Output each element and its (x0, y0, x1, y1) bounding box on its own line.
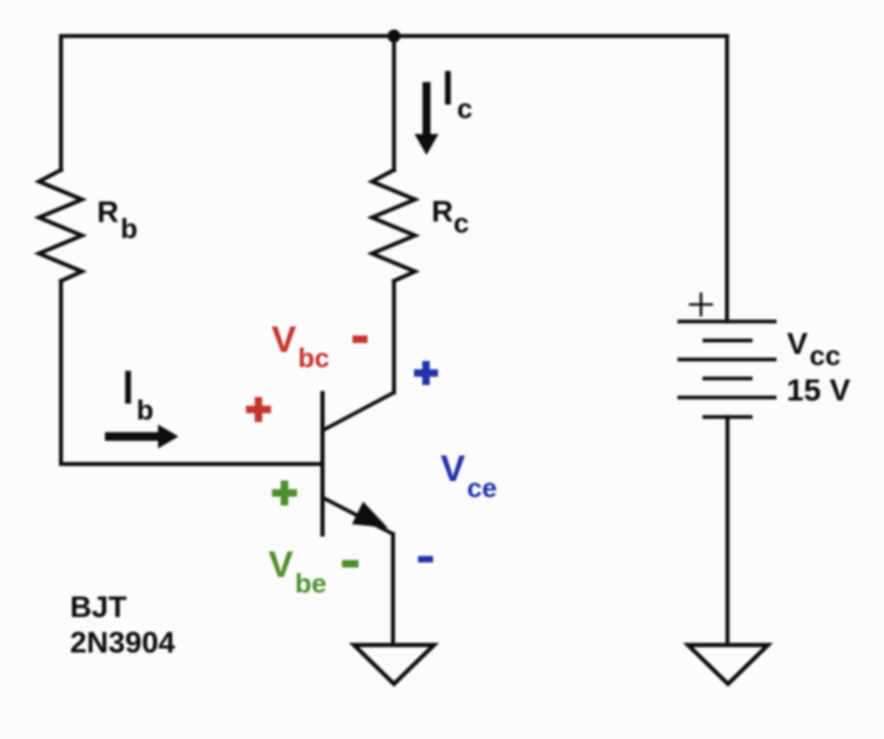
label Ic (445, 71, 473, 124)
svg-text:R: R (432, 196, 454, 229)
ground (battery) (688, 645, 768, 684)
wire battery bottom to ground (726, 417, 730, 645)
wire Rb bottom to base (61, 281, 323, 464)
label Ib (125, 371, 153, 426)
battery plus terminal sign (689, 293, 713, 317)
polarity minus Vbe (green) (342, 560, 359, 568)
ground (emitter) (354, 645, 434, 684)
current arrow Ic (415, 82, 439, 155)
resistor Rb (39, 170, 82, 281)
svg-text:bc: bc (298, 343, 330, 373)
svg-text:V: V (787, 326, 808, 361)
svg-text:ce: ce (467, 473, 497, 503)
svg-text:2N3904: 2N3904 (70, 627, 175, 660)
svg-text:be: be (295, 569, 327, 599)
node junction dot (388, 30, 401, 43)
transistor Q1 emitter arrowhead (353, 503, 386, 527)
label Vce (blue) (441, 448, 498, 503)
svg-text:V: V (441, 448, 466, 489)
svg-text:V: V (269, 544, 294, 585)
current arrow Ib (105, 425, 179, 449)
svg-text:c: c (457, 93, 473, 124)
resistor Rc (372, 170, 415, 281)
polarity plus Vce (blue) (414, 361, 438, 385)
label Vbc (red) (272, 319, 330, 373)
svg-text:b: b (121, 213, 138, 244)
svg-text:R: R (97, 196, 119, 229)
svg-text:BJT: BJT (70, 591, 127, 624)
polarity minus Vce (blue) (418, 556, 433, 563)
label Vbe (green) (269, 544, 327, 599)
polarity plus Vbe (green) (272, 481, 297, 506)
svg-text:c: c (454, 208, 470, 239)
battery Vcc plates (678, 322, 777, 418)
wire emitter to ground (391, 534, 395, 645)
label Rb (97, 196, 138, 244)
svg-text:15 V: 15 V (787, 373, 851, 408)
transistor Q1 collector lead (323, 393, 395, 431)
polarity minus Vbc (red) (353, 336, 368, 344)
wire right vertical to battery (725, 36, 729, 322)
wire collector drop from junction (392, 36, 396, 170)
wire Rc bottom to collector (392, 281, 396, 393)
transistor Q1 emitter lead (323, 498, 394, 535)
label Vcc (787, 326, 841, 371)
wire top rail (61, 34, 727, 38)
svg-text:b: b (137, 395, 154, 426)
svg-text:V: V (272, 319, 297, 360)
svg-text:cc: cc (810, 340, 841, 371)
transistor Q1 base bar (320, 391, 324, 537)
polarity plus Vbc (red) (246, 397, 271, 422)
wire left vertical to Rb (59, 36, 63, 170)
label Rc (432, 196, 470, 239)
